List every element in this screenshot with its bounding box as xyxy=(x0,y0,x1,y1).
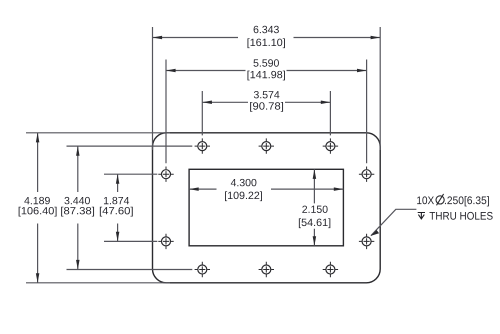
hole H4 bottom-left xyxy=(195,262,210,277)
hole H1 top-left xyxy=(195,138,210,153)
dimension 1.874 [47.60] side hole span xyxy=(100,174,157,241)
inner cutout rectangle xyxy=(189,169,343,246)
dimension 4.300 [109.22] cutout width xyxy=(189,179,343,201)
hole H8 left-lower xyxy=(158,234,173,249)
hole H7 left-upper xyxy=(158,167,173,182)
hole H3 top-right xyxy=(323,138,338,153)
dimension 3.440 [87.38] hole-row span xyxy=(61,146,192,269)
leader line to hole H10 xyxy=(371,209,417,236)
hole H6 bottom-right xyxy=(323,262,338,277)
depth symbol xyxy=(418,213,425,219)
hole H10 right-lower xyxy=(359,234,374,249)
annotation 10X dia .250 [6.35] xyxy=(417,194,489,206)
hole H9 right-upper xyxy=(359,167,374,182)
dimension 3.574 [90.78] top-row hole span xyxy=(202,91,330,135)
hole H5 bottom-middle xyxy=(259,262,274,277)
diameter symbol xyxy=(436,196,444,204)
dimension 5.590 [141.98] hole-column span xyxy=(166,59,367,163)
dimension 4.189 [106.40] overall height xyxy=(19,133,170,283)
dimension 2.150 [54.61] cutout height xyxy=(299,169,330,246)
hole H2 top-middle xyxy=(259,138,274,153)
annotation THRU HOLES with depth symbol xyxy=(418,212,493,220)
plate outline xyxy=(153,133,381,283)
dimension 6.343 [161.10] overall width xyxy=(153,26,381,150)
